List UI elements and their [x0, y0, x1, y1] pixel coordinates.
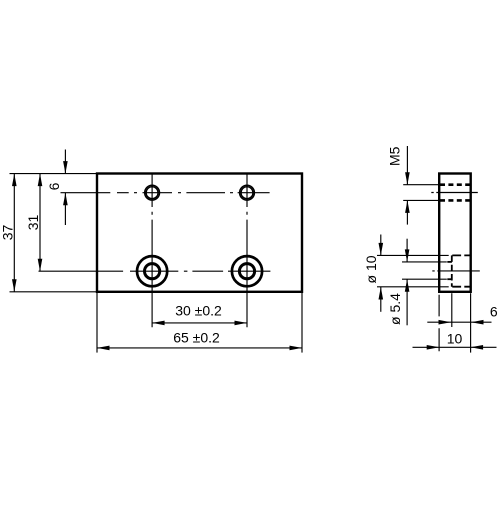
svg-text:65 ±0.2: 65 ±0.2 [173, 329, 220, 345]
extension line dia5.4 bottom [402, 278, 447, 280]
extension line dia10 bottom [377, 286, 449, 288]
dimension 10 [413, 346, 497, 348]
dimension 65 +-0.2 [97, 347, 302, 349]
counterbored hole bottom-left inner [145, 264, 160, 279]
svg-text:37: 37 [0, 225, 15, 241]
svg-text:10: 10 [447, 331, 463, 347]
plate outline front view [97, 174, 302, 292]
dimension dia 10 [380, 235, 382, 256]
hidden line M5 hole top [440, 183, 470, 186]
extension line 65 left [96, 293, 98, 353]
extension line side right face [470, 293, 472, 352]
centerline horizontal top hole row [61, 192, 270, 194]
extension line cbore step below [451, 293, 453, 327]
hidden line M5 hole bottom [440, 199, 470, 202]
dimension 6 left [64, 150, 66, 174]
svg-text:31: 31 [25, 215, 41, 231]
dimension dia 5.4 [406, 239, 408, 262]
extension line dia10 top [377, 254, 449, 256]
extension line dia5.4 top [402, 261, 447, 263]
svg-text:6: 6 [490, 304, 498, 320]
counterbored hole bottom-right outer [232, 256, 262, 286]
tapped hole M5 top-left [145, 185, 160, 200]
hidden line dia5.4 bottom [447, 278, 452, 280]
counterbored hole bottom-left outer [137, 256, 167, 286]
extension line top-left [10, 173, 98, 175]
extension line bottom-left [10, 291, 98, 293]
centerline counterbore hole [432, 270, 480, 272]
centerline M5 hole [431, 192, 478, 194]
hidden line dia5.4 top [447, 261, 452, 263]
dimension 6 right [427, 321, 491, 323]
svg-text:M5: M5 [387, 146, 403, 166]
extension line M5 bottom [403, 199, 439, 201]
centerline horizontal bottom hole row [39, 270, 271, 272]
svg-text:ø 10: ø 10 [363, 255, 379, 283]
centerline vertical right hole column [246, 174, 248, 328]
extension line 65 right [301, 293, 303, 353]
plate outline side view [439, 174, 471, 292]
tapped hole M5 top-right [240, 185, 255, 200]
svg-text:30 ±0.2: 30 ±0.2 [175, 302, 222, 318]
dimension 31 [39, 174, 41, 272]
counterbored hole bottom-right inner [239, 264, 254, 279]
dimension 37 [13, 174, 15, 292]
centerline vertical left hole column [151, 174, 153, 328]
extension line M5 top [403, 184, 439, 186]
hidden line cbore step [451, 255, 453, 286]
svg-text:ø 5.4: ø 5.4 [387, 293, 403, 325]
dimension 30 +-0.2 [152, 322, 247, 324]
svg-text:6: 6 [46, 182, 62, 190]
dimension M5 [406, 146, 408, 185]
hidden line cbore dia10 top [452, 254, 470, 256]
extension line side left face [438, 295, 440, 352]
hidden line cbore dia10 bottom [452, 286, 470, 288]
